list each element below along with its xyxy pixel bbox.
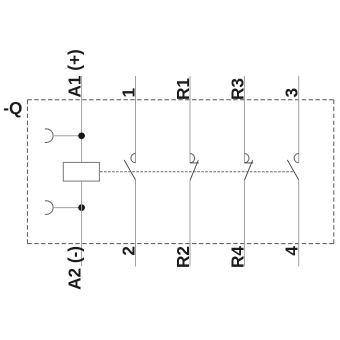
coil clip contact upper (socket arc) [45, 129, 53, 143]
component outline -Q (dashed enclosure) [27, 100, 333, 244]
node junction A2/coil [78, 204, 85, 211]
terminal R2 wire (bottom) [189, 180, 191, 266]
terminal R3 wire (top) [243, 76, 245, 163]
NC contact R3-R4 moving blade [244, 160, 252, 180]
terminal 1 wire (top) [135, 76, 137, 163]
terminal R4 wire (bottom) [243, 180, 245, 266]
terminal A1 wire [81, 76, 83, 162]
NO contact 3-4 moving blade [287, 160, 298, 180]
NO contact 1-2 moving blade [124, 160, 135, 180]
svg-text:4: 4 [282, 246, 302, 256]
svg-text:R3: R3 [227, 78, 247, 100]
NC contact R3-R4 fixed arc [244, 154, 249, 163]
svg-text:1: 1 [119, 88, 139, 98]
svg-text:-Q: -Q [3, 98, 22, 118]
terminal 4 wire (bottom) [298, 180, 300, 267]
svg-text:R1: R1 [173, 78, 193, 100]
terminal 2 wire (bottom) [135, 180, 137, 267]
terminal R1 wire (top) [189, 76, 191, 163]
mechanical linkage (dashed) [100, 171, 294, 173]
node junction A1/coil [78, 132, 85, 139]
coil clip contact lower (socket arc) [45, 201, 53, 215]
coil (operating magnet) [63, 162, 99, 181]
NC contact R1-R2 fixed arc [190, 154, 195, 163]
terminal A2 wire [81, 181, 83, 266]
svg-text:2: 2 [119, 246, 139, 256]
svg-text:A2 (-): A2 (-) [65, 246, 85, 290]
wire socket to node A1 [53, 135, 82, 137]
NC contact R3-R4 seat bar [244, 162, 253, 164]
svg-text:R2: R2 [173, 246, 193, 268]
terminal 3 wire (top) [298, 76, 300, 163]
NO contact 1-2 fixed arc [131, 154, 136, 163]
svg-text:3: 3 [282, 88, 302, 98]
NC contact R1-R2 seat bar [190, 162, 199, 164]
NO contact 3-4 fixed arc [294, 154, 299, 163]
NC contact R1-R2 moving blade [190, 160, 198, 180]
svg-text:A1 (+): A1 (+) [65, 49, 85, 97]
wire socket to node A2 [53, 207, 82, 209]
svg-text:R4: R4 [227, 246, 247, 268]
